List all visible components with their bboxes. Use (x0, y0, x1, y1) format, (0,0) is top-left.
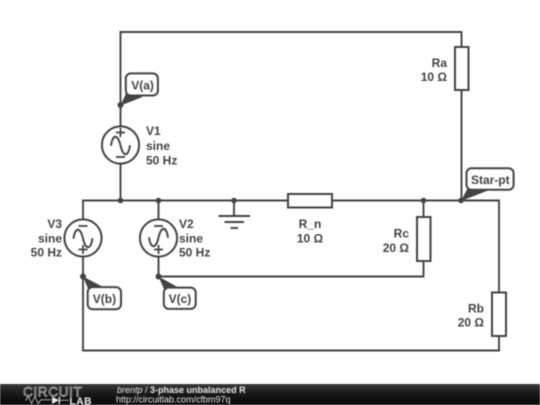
svg-text:Rc: Rc (394, 227, 410, 241)
svg-text:20 Ω: 20 Ω (458, 316, 485, 330)
wire V2 top pin (158, 201, 160, 220)
wire Rb top to bus corner (498, 200, 500, 293)
svg-text:Ra: Ra (432, 56, 448, 70)
svg-text:V1: V1 (146, 124, 161, 138)
svg-text:http://circuitlab.com/cfbm97q: http://circuitlab.com/cfbm97q (116, 394, 231, 404)
ground (219, 201, 251, 229)
junction ground-bus (231, 198, 237, 204)
svg-text:sine: sine (179, 231, 203, 245)
label V1 sine 50 Hz (146, 124, 177, 168)
wire Rc bottom pin (423, 261, 425, 278)
wire V3 top pin (82, 200, 84, 220)
label Rb 20 Ω (458, 302, 485, 330)
svg-text:20 Ω: 20 Ω (383, 241, 410, 255)
wire V1 bottom pin (120, 164, 122, 201)
wire V1 top to top-left corner (120, 31, 122, 126)
svg-text:V2: V2 (179, 217, 194, 231)
svg-text:V(a): V(a) (131, 78, 154, 92)
svg-text:sine: sine (146, 139, 170, 153)
wire V2 bottom pin (158, 257, 160, 277)
svg-text:10 Ω: 10 Ω (297, 232, 324, 246)
svg-text:V(b): V(b) (93, 292, 116, 306)
wire Rb bottom pin (498, 336, 500, 352)
resistor R_n (288, 194, 332, 208)
junction V2-bus (156, 198, 162, 204)
node Star-pt (461, 168, 514, 201)
junction Rc-bus (421, 198, 427, 204)
label V3 sine 50 Hz (31, 217, 63, 259)
wire neutral bus right of R_n (332, 200, 499, 202)
voltage source V3 (64, 219, 101, 256)
wire Ra bottom to Star-pt node (461, 90, 463, 201)
resistor Rb (492, 293, 506, 337)
svg-text:V(c): V(c) (169, 292, 192, 306)
node V(c) (156, 274, 196, 309)
label R_n 10 Ω (297, 217, 324, 246)
svg-text:50 Hz: 50 Hz (31, 246, 62, 260)
voltage source V2 (140, 219, 177, 256)
svg-text:Star-pt: Star-pt (471, 173, 510, 187)
wire V3 bottom to bottom-left corner (82, 257, 84, 352)
wire top horizontal (120, 31, 462, 33)
svg-text:sine: sine (38, 231, 62, 245)
voltage source V1 (102, 126, 139, 163)
svg-text:50 Hz: 50 Hz (146, 154, 177, 168)
svg-text:LAB: LAB (70, 396, 92, 405)
wire neutral bus left of R_n (83, 200, 288, 202)
wire bottom horizontal (82, 350, 500, 352)
wire V(c) node to below Rc (159, 276, 424, 278)
svg-text:50 Hz: 50 Hz (179, 246, 210, 260)
label V2 sine 50 Hz (179, 217, 210, 259)
label Rc 20 Ω (383, 227, 410, 256)
svg-text:brentp / 3-phase unbalanced R: brentp / 3-phase unbalanced R (117, 385, 246, 395)
wire Rc top pin (423, 201, 425, 218)
svg-text:V3: V3 (47, 217, 62, 231)
wire Ra top pin (461, 31, 463, 47)
footer title text (116, 385, 246, 405)
svg-text:Rb: Rb (468, 302, 484, 316)
label Ra 10 Ω (421, 56, 448, 84)
resistor Ra (455, 47, 469, 90)
node V(a) (118, 73, 158, 108)
svg-text:R_n: R_n (299, 217, 322, 231)
footer bar (0, 384, 540, 405)
junction Star-pt (458, 198, 464, 204)
CircuitLab logo (23, 385, 92, 405)
svg-text:10 Ω: 10 Ω (421, 70, 448, 84)
resistor Rc (417, 217, 431, 261)
junction V1-bus (118, 198, 124, 204)
node V(b) (80, 274, 121, 310)
